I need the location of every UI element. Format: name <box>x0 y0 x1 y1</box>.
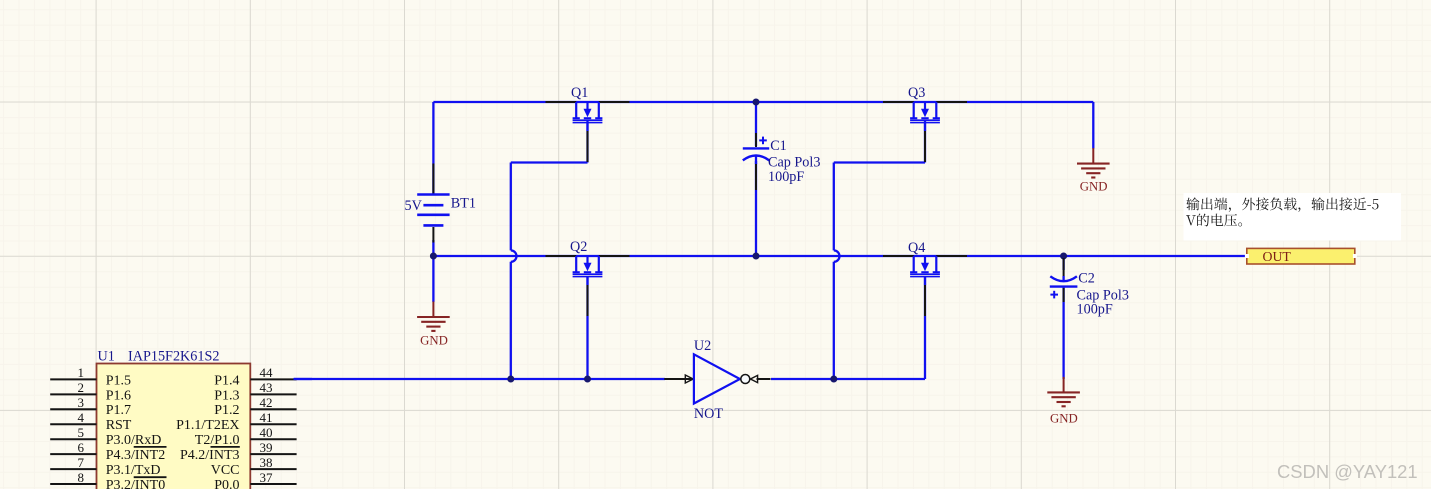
junction Q1-gate net / bottom bus <box>507 376 514 383</box>
IC U1 body <box>97 364 251 489</box>
svg-text:37: 37 <box>260 470 274 485</box>
svg-text:P4.3/INT2: P4.3/INT2 <box>106 448 166 463</box>
capacitor C1 <box>743 133 769 190</box>
svg-text:100pF: 100pF <box>1077 302 1113 318</box>
svg-text:38: 38 <box>260 455 273 470</box>
IC U1 pin names <box>106 373 240 489</box>
svg-text:5V: 5V <box>405 198 423 214</box>
battery BT1 <box>417 164 449 243</box>
wire top bus <box>433 102 1093 194</box>
svg-text:Q1: Q1 <box>571 85 588 101</box>
svg-text:GND: GND <box>420 333 448 347</box>
svg-text:IAP15F2K61S2: IAP15F2K61S2 <box>128 349 219 365</box>
svg-text:2: 2 <box>78 380 85 395</box>
wire C1 branch <box>755 102 757 256</box>
svg-text:OUT: OUT <box>1263 249 1292 264</box>
junction C2 top <box>1060 253 1067 260</box>
svg-text:U1: U1 <box>98 349 115 365</box>
junction Q2 gate / bottom bus <box>584 376 591 383</box>
svg-text:P4.2/INT3: P4.2/INT3 <box>180 448 240 463</box>
svg-text:Q3: Q3 <box>908 85 925 101</box>
svg-text:P1.1/T2EX: P1.1/T2EX <box>176 418 239 433</box>
wire mid junction to GND lead <box>432 256 434 302</box>
svg-text:P1.3: P1.3 <box>214 388 239 403</box>
svg-text:40: 40 <box>260 425 273 440</box>
svg-text:8: 8 <box>78 470 85 485</box>
wire mid bus <box>433 255 1246 257</box>
svg-text:P3.2/INT0: P3.2/INT0 <box>106 478 166 489</box>
svg-text:C1: C1 <box>770 138 787 154</box>
wire C2 branch <box>1062 256 1064 379</box>
junction at C1 top <box>753 99 760 106</box>
wire Q1 gate route <box>511 121 588 379</box>
ground under battery <box>417 302 450 331</box>
svg-text:43: 43 <box>260 380 273 395</box>
svg-text:T2/P1.0: T2/P1.0 <box>195 433 240 448</box>
svg-text:P1.7: P1.7 <box>106 403 131 418</box>
capacitor C2 <box>1050 258 1078 302</box>
wire Q3 gate route <box>834 121 925 379</box>
svg-text:3: 3 <box>78 395 85 410</box>
svg-text:Q4: Q4 <box>908 240 925 256</box>
net label OUT selection handles <box>1245 254 1357 258</box>
svg-text:Q2: Q2 <box>570 239 587 255</box>
svg-text:NOT: NOT <box>694 406 723 422</box>
svg-text:1: 1 <box>78 365 85 380</box>
svg-text:P3.1/TxD: P3.1/TxD <box>106 463 161 478</box>
svg-text:VCC: VCC <box>211 463 240 478</box>
wire bottom bus right (U2 output to Q4 gate) <box>771 276 925 379</box>
svg-text:P0.0: P0.0 <box>214 478 239 489</box>
transistor Q1 <box>546 102 630 162</box>
IC U1 pin numbers <box>78 365 274 485</box>
annotation line 2 <box>1186 214 1242 227</box>
svg-text:P1.5: P1.5 <box>106 373 131 388</box>
transistor Q3 <box>883 102 967 162</box>
annotation line 1 <box>1186 197 1378 212</box>
annotation white box <box>1184 193 1402 241</box>
svg-text:P1.4: P1.4 <box>214 373 239 388</box>
transistor Q4 <box>883 256 967 316</box>
svg-text:P1.6: P1.6 <box>106 388 131 403</box>
svg-text:7: 7 <box>78 455 85 470</box>
wire Q2 gate to bottom bus <box>586 276 588 379</box>
svg-text:39: 39 <box>260 440 273 455</box>
svg-text:GND: GND <box>1050 411 1078 425</box>
svg-text:4: 4 <box>78 410 85 425</box>
ground right of Q3 <box>1077 148 1110 177</box>
IC U1 active-low bars <box>134 447 240 477</box>
svg-text:GND: GND <box>1080 180 1108 194</box>
wire battery to mid junction <box>432 240 434 256</box>
svg-text:BT1: BT1 <box>451 196 476 212</box>
junction Q3-gate net / bottom bus <box>830 376 837 383</box>
svg-text:5: 5 <box>78 425 85 440</box>
junction battery/mid bus <box>430 253 437 260</box>
svg-text:44: 44 <box>260 365 274 380</box>
svg-text:CSDN @YAY121: CSDN @YAY121 <box>1277 461 1418 482</box>
ground under C2 <box>1047 377 1080 406</box>
wire bottom bus left (U1 pin 44 to U2 input) <box>294 378 665 380</box>
svg-text:6: 6 <box>78 440 85 455</box>
net label OUT box <box>1247 248 1355 264</box>
inverter U2 (NOT gate) <box>664 354 770 403</box>
svg-text:P3.0/RxD: P3.0/RxD <box>106 433 162 448</box>
junction C1 bottom <box>753 253 760 260</box>
svg-text:C2: C2 <box>1078 270 1095 286</box>
svg-text:41: 41 <box>260 410 273 425</box>
svg-text:42: 42 <box>260 395 273 410</box>
svg-text:RST: RST <box>106 418 132 433</box>
svg-text:P1.2: P1.2 <box>214 403 239 418</box>
transistor Q2 <box>546 256 630 316</box>
svg-text:U2: U2 <box>694 338 711 354</box>
svg-text:100pF: 100pF <box>768 169 804 185</box>
IC U1 pins <box>50 379 296 484</box>
wire stub at U1 pin 44 <box>294 378 313 380</box>
